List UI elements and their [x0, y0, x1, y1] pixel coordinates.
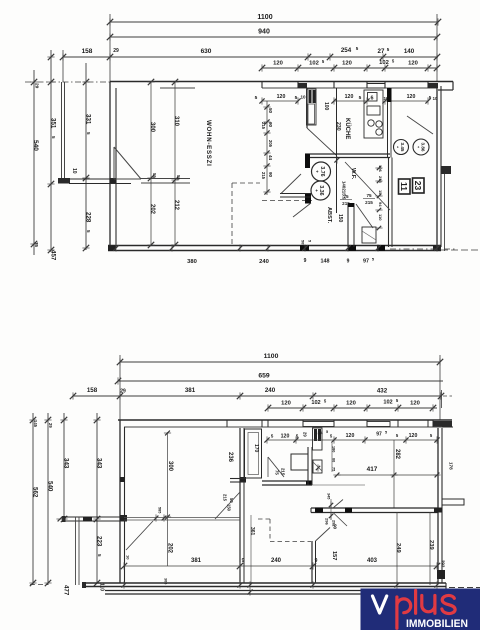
svg-text:202: 202	[166, 543, 172, 554]
svg-text:5: 5	[322, 59, 325, 64]
svg-text:240: 240	[259, 259, 269, 265]
svg-text:215: 215	[280, 468, 285, 476]
svg-text:5: 5	[385, 431, 387, 435]
kitchen right wall	[387, 102, 389, 158]
window dim lines inside (top plan)	[262, 100, 298, 102]
logo vplus IMMOBILIEN	[361, 589, 480, 630]
svg-text:75: 75	[34, 242, 39, 248]
bottom wall ticks (top plan)	[115, 244, 117, 251]
svg-text:5: 5	[396, 433, 399, 438]
neighbour wall top right (bottom plan)	[441, 390, 443, 408]
dimension line 120/102.5 row (bottom plan)	[268, 407, 437, 409]
logo letter p	[397, 597, 411, 628]
svg-text:457: 457	[49, 250, 56, 261]
svg-text:5: 5	[86, 230, 91, 233]
logo background	[361, 589, 480, 630]
svg-text:5: 5	[86, 132, 91, 135]
svg-text:296: 296	[325, 518, 330, 525]
window jambs top wall (top plan)	[261, 82, 263, 89]
svg-text:120: 120	[346, 401, 356, 407]
svg-text:120: 120	[273, 61, 283, 67]
svg-text:110: 110	[378, 214, 383, 221]
svg-text:10: 10	[71, 168, 77, 174]
right room circle 3.86	[413, 139, 429, 155]
interior dim line 300/202 (top plan)	[150, 82, 152, 245]
svg-text:562: 562	[31, 487, 38, 498]
svg-text:205: 205	[268, 140, 273, 148]
vertical dimension line 331.5/228.5 (left)	[85, 63, 87, 250]
svg-text:240: 240	[265, 387, 276, 394]
svg-text:223: 223	[95, 536, 102, 547]
svg-text:120: 120	[409, 433, 418, 439]
right pier (bottom plan)	[442, 499, 464, 505]
svg-text:254: 254	[341, 47, 352, 54]
svg-text:102: 102	[309, 61, 319, 67]
svg-text:215: 215	[365, 200, 373, 205]
svg-text:29: 29	[113, 48, 119, 54]
svg-text:5: 5	[255, 95, 258, 101]
dimension line 158/630/254.5/27.5/140 (top plan)	[63, 56, 438, 58]
svg-text:5: 5	[359, 95, 362, 101]
svg-text:5: 5	[51, 136, 56, 139]
svg-text:381: 381	[191, 558, 202, 564]
svg-text:5: 5	[330, 434, 333, 439]
left wall junction block (top plan)	[110, 178, 117, 184]
svg-text:23: 23	[413, 181, 423, 191]
svg-text:10: 10	[300, 95, 306, 100]
svg-text:11: 11	[399, 182, 409, 191]
svg-text:10: 10	[433, 96, 438, 101]
svg-text:+: +	[314, 170, 319, 173]
right room door swing	[407, 116, 433, 134]
svg-text:5: 5	[295, 95, 298, 101]
vertical dimension line 540 (bottom left)	[47, 413, 49, 585]
kitchen wall junction tick	[336, 156, 338, 163]
dim extension line 361	[250, 515, 252, 583]
vertical dimension line 343 a (bottom left)	[63, 413, 65, 519]
shaft lower pieces (bottom plan)	[313, 460, 322, 473]
top plan outer top wall	[110, 81, 453, 83]
kitchen bottom wall	[305, 153, 390, 155]
label 6 box	[368, 93, 378, 102]
bottom walls (bottom plan)	[84, 582, 446, 584]
dash line to logo	[449, 587, 480, 589]
wardrobe rect 170	[245, 429, 262, 478]
vertical dim extension lines above bottom plan	[119, 355, 121, 420]
svg-text:9: 9	[347, 259, 350, 265]
svg-text:IMMOBILIEN: IMMOBILIEN	[406, 618, 468, 630]
svg-text:75: 75	[366, 193, 372, 198]
bath bottom wall (bottom plan)	[262, 480, 312, 482]
svg-text:505: 505	[301, 240, 305, 246]
svg-text:29: 29	[120, 389, 126, 395]
svg-text:94: 94	[378, 202, 383, 207]
terrace interior walls	[311, 541, 313, 583]
svg-text:215: 215	[261, 122, 266, 130]
dimension line 1100 (bottom plan)	[120, 361, 440, 363]
vertical dimension line 343 b / 223.5 (bottom left)	[96, 413, 98, 583]
svg-text:292: 292	[440, 560, 445, 568]
wc wall black (top plan)	[305, 154, 310, 168]
svg-text:540: 540	[32, 140, 39, 151]
svg-text:90: 90	[268, 122, 273, 128]
svg-text:305: 305	[164, 578, 168, 584]
svg-text:417: 417	[367, 466, 378, 473]
interior dim line 417	[337, 474, 437, 476]
svg-text:5: 5	[396, 398, 399, 403]
interior dim row (bottom plan)	[267, 439, 437, 441]
terrace wall bar (top plan)	[69, 178, 131, 180]
svg-text:343: 343	[95, 458, 102, 469]
svg-text:5: 5	[392, 59, 395, 64]
vertical dim extension lines above top plan	[109, 14, 111, 82]
interior dim vertical 282	[393, 440, 395, 508]
svg-text:00: 00	[332, 458, 336, 462]
svg-text:120: 120	[281, 434, 290, 440]
dimension line 120/102.5 row (top plan)	[262, 67, 437, 69]
logo letter u	[422, 596, 435, 614]
terrace railing (bottom plan)	[75, 517, 77, 585]
bath door swing	[268, 457, 284, 477]
svg-text:180: 180	[332, 446, 336, 452]
wardrobe wall (bottom plan)	[239, 428, 241, 583]
wc circle 3.76	[312, 162, 331, 181]
svg-text:120: 120	[342, 61, 352, 67]
svg-text:150: 150	[227, 504, 232, 512]
left wall (top plan)	[109, 82, 111, 247]
svg-text:+: +	[314, 189, 319, 192]
svg-text:29: 29	[33, 83, 39, 89]
abst door swing	[356, 204, 373, 228]
svg-text:145: 145	[33, 420, 38, 428]
svg-text:5: 5	[271, 434, 274, 439]
svg-text:10: 10	[126, 555, 131, 560]
svg-text:331: 331	[84, 114, 91, 125]
svg-text:WOHN-ESSZI: WOHN-ESSZI	[205, 120, 212, 167]
wc door swing	[281, 174, 301, 194]
svg-text:29: 29	[48, 423, 53, 428]
svg-text:75: 75	[274, 470, 279, 475]
dashed projection lines (top plan)	[232, 182, 260, 184]
black blocks above logo	[437, 570, 445, 579]
svg-text:6: 6	[371, 96, 374, 102]
terrace dim verticals	[396, 512, 398, 585]
svg-text:300: 300	[167, 461, 173, 472]
svg-text:75: 75	[343, 194, 349, 199]
wall piers top wall (bottom plan)	[303, 422, 334, 427]
svg-text:5: 5	[430, 433, 433, 438]
svg-text:157: 157	[331, 551, 337, 560]
svg-text:140: 140	[404, 48, 415, 55]
svg-text:630: 630	[201, 48, 212, 55]
svg-text:97: 97	[376, 432, 382, 438]
vertical dimension line 562 (bottom left)	[32, 413, 34, 585]
terrace railing left (top plan)	[61, 82, 63, 178]
vertical dimension line 351.5/457 (left)	[50, 50, 52, 252]
dim chain small (bottom plan left)	[331, 443, 333, 472]
svg-text:5: 5	[308, 240, 312, 242]
svg-text:KÜCHE: KÜCHE	[344, 118, 351, 139]
svg-text:477: 477	[62, 585, 69, 596]
svg-text:29: 29	[303, 432, 308, 437]
svg-text:102: 102	[311, 400, 320, 406]
top wall (bottom plan)	[118, 419, 452, 421]
svg-text:540: 540	[46, 481, 53, 492]
svg-text:97: 97	[363, 259, 369, 265]
window jambs top wall (bottom plan)	[226, 420, 228, 427]
svg-text:240: 240	[271, 558, 282, 564]
svg-text:55: 55	[152, 173, 157, 178]
terrace dim line (bottom plan)	[124, 565, 437, 567]
svg-text:5: 5	[372, 257, 375, 262]
wf right wall	[388, 158, 390, 248]
svg-text:120: 120	[281, 401, 291, 407]
interior dim line 310/212 (top plan)	[174, 82, 176, 245]
dimension line 158/381/240/432 (bottom plan)	[73, 395, 441, 397]
svg-text:120: 120	[407, 94, 416, 100]
svg-text:120: 120	[345, 94, 354, 100]
vertical dimension line 540 (left)	[33, 70, 35, 255]
svg-text:34: 34	[317, 431, 323, 437]
svg-text:50: 50	[268, 108, 273, 114]
wall piers top wall (top plan)	[298, 83, 307, 88]
svg-text:27: 27	[378, 48, 385, 55]
svg-text:102: 102	[379, 60, 389, 66]
chain line bottom right (top plan)	[390, 248, 455, 250]
kitchen/wf wall black top	[387, 88, 392, 102]
bottom-room wall y508 (bottom plan)	[311, 507, 438, 509]
logo letter v	[373, 596, 387, 613]
room dim labels (bottom plan)	[167, 432, 169, 566]
unit number box 23	[413, 178, 425, 193]
right wall (bottom plan)	[437, 428, 439, 583]
svg-text:150: 150	[337, 214, 343, 223]
parapet line left room (bottom plan)	[124, 517, 240, 519]
svg-text:212: 212	[173, 200, 179, 211]
lower-left door swing (top plan)	[293, 203, 311, 217]
shaft rect near abst	[362, 227, 376, 243]
svg-text:120: 120	[408, 61, 418, 67]
svg-text:585: 585	[158, 507, 162, 513]
dimension line 1100 (top plan)	[110, 21, 438, 23]
unit number box 11	[399, 179, 411, 194]
kitchen left wall	[336, 88, 338, 213]
dashed lines terrace	[269, 519, 271, 541]
svg-text:249: 249	[395, 543, 401, 553]
svg-text:381: 381	[185, 387, 196, 394]
terrace divider door swing	[316, 528, 331, 542]
svg-text:202: 202	[149, 204, 155, 215]
svg-text:310: 310	[173, 116, 179, 127]
svg-text:100: 100	[323, 102, 329, 111]
svg-text:215: 215	[223, 494, 228, 502]
bottom wall (top plan)	[108, 245, 441, 247]
svg-text:351: 351	[49, 118, 56, 129]
svg-text:148: 148	[321, 259, 330, 265]
svg-text:120: 120	[277, 94, 286, 100]
svg-text:345: 345	[327, 493, 331, 499]
entrance shaft (top plan)	[307, 89, 317, 125]
svg-text:1100: 1100	[264, 353, 279, 360]
terrace door swing (bottom plan left)	[126, 521, 153, 550]
svg-text:9: 9	[304, 258, 307, 264]
left wall (bottom plan)	[119, 420, 121, 583]
right wall pier	[441, 166, 451, 174]
svg-text:9: 9	[242, 558, 245, 564]
svg-text:120: 120	[410, 401, 420, 407]
svg-text:343: 343	[62, 458, 69, 469]
svg-text:403: 403	[367, 558, 378, 564]
svg-text:5: 5	[296, 434, 299, 439]
dimension line 659 (bottom plan)	[118, 380, 443, 382]
balcony rail right	[444, 174, 446, 251]
dash segment bottom left	[30, 584, 48, 586]
svg-text:230: 230	[335, 122, 341, 131]
bath circle 3.36	[311, 181, 330, 200]
svg-text:659: 659	[258, 373, 270, 380]
wf door swing diagonal	[345, 162, 390, 210]
svg-text:178: 178	[448, 462, 453, 470]
svg-text:W.F.: W.F.	[350, 168, 356, 180]
bath right wall	[307, 447, 309, 485]
svg-text:50: 50	[229, 498, 234, 503]
shaft (bottom plan)	[313, 428, 323, 450]
svg-text:102: 102	[383, 400, 392, 406]
right room circle 3.45	[394, 140, 409, 155]
dimension line 940 (top plan)	[110, 36, 437, 38]
svg-text:44: 44	[268, 155, 273, 161]
svg-text:5: 5	[324, 399, 327, 404]
svg-text:432: 432	[377, 388, 388, 395]
parapet segment (top plan)	[141, 178, 190, 180]
svg-text:5: 5	[97, 554, 102, 557]
svg-text:75: 75	[332, 467, 336, 471]
svg-text:236: 236	[227, 452, 233, 463]
logo letter l	[414, 591, 417, 614]
svg-text:228: 228	[84, 212, 91, 223]
svg-text:380: 380	[187, 259, 197, 265]
logo letter s	[442, 595, 455, 613]
stair/door triangle (top plan)	[113, 147, 115, 179]
svg-text:158: 158	[82, 48, 93, 55]
svg-text:120: 120	[346, 433, 355, 439]
shower square	[291, 454, 308, 470]
svg-text:361: 361	[249, 527, 255, 536]
bottom wall ticks (bottom plan)	[123, 581, 125, 588]
svg-text:292: 292	[332, 520, 336, 526]
svg-text:9: 9	[315, 558, 318, 564]
terrace door swing (bottom plan left-2)	[215, 492, 240, 519]
terrace left wall (bottom plan)	[62, 516, 124, 518]
svg-text:5: 5	[356, 46, 359, 51]
svg-text:1100: 1100	[257, 14, 272, 21]
wf dim chain labels right	[378, 160, 380, 243]
svg-text:5: 5	[387, 47, 390, 52]
svg-text:170: 170	[253, 444, 259, 453]
hall door dimension chain (top plan)	[266, 101, 268, 195]
svg-text:282: 282	[394, 449, 400, 460]
abst wall	[347, 203, 349, 247]
hall wall and door swing (top plan)	[306, 88, 308, 128]
svg-text:158: 158	[87, 387, 98, 394]
svg-text:5: 5	[326, 430, 328, 434]
svg-text:ABST.: ABST.	[326, 207, 332, 224]
top wall inner edge segments	[160, 87, 195, 89]
reference chain line (top plan left)	[25, 81, 110, 83]
svg-text:90: 90	[268, 172, 273, 178]
right wall (top plan)	[436, 86, 438, 247]
svg-text:215: 215	[261, 172, 266, 180]
svg-text:55: 55	[176, 175, 181, 180]
svg-text:940: 940	[258, 29, 270, 36]
svg-text:239: 239	[428, 540, 434, 550]
kitchen counter	[364, 90, 383, 138]
wc lower wall bar	[280, 193, 311, 195]
svg-text:300: 300	[149, 122, 155, 133]
